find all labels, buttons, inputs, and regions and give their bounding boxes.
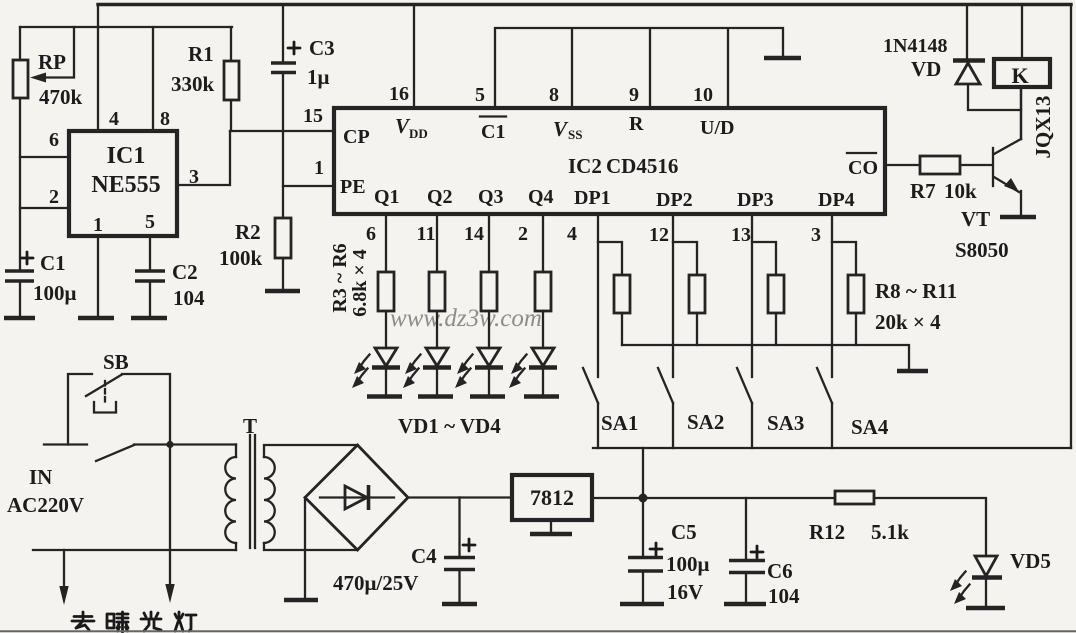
wire IC1 pin1 rail xyxy=(97,236,99,316)
svg-text:CO: CO xyxy=(848,157,878,179)
svg-text:100k: 100k xyxy=(219,246,263,270)
resistor R1 xyxy=(230,27,232,131)
svg-text:CP: CP xyxy=(343,126,370,148)
svg-text:7812: 7812 xyxy=(530,485,574,510)
wire SA bottom bus xyxy=(593,447,1071,449)
svg-text:330k: 330k xyxy=(171,72,215,96)
wire AC lower line xyxy=(33,549,236,551)
svg-text:IC1: IC1 xyxy=(107,143,146,169)
svg-text:IC2: IC2 xyxy=(568,154,602,178)
wire IC1 pin8 rail xyxy=(152,27,154,131)
resistor R2 xyxy=(275,218,291,258)
switch SB (upper pole bypass) xyxy=(68,374,92,445)
svg-text:8: 8 xyxy=(549,84,559,106)
svg-text:DD: DD xyxy=(409,126,428,141)
ground (VD4) xyxy=(524,394,559,399)
svg-text:4: 4 xyxy=(109,108,119,130)
node junction (+12V) xyxy=(639,494,648,503)
node junction (SB bypass) xyxy=(166,441,173,448)
counter IC2 CD4516 xyxy=(334,108,885,214)
svg-text:1: 1 xyxy=(93,214,103,236)
svg-text:14: 14 xyxy=(464,223,484,245)
svg-text:PE: PE xyxy=(340,176,366,198)
resistor R3 xyxy=(378,272,394,311)
resistor R9 xyxy=(673,242,697,345)
svg-text:20k × 4: 20k × 4 xyxy=(875,310,941,334)
potentiometer RP xyxy=(19,27,21,271)
ground (C4) xyxy=(442,602,477,607)
LED VD1 xyxy=(385,311,387,348)
svg-text:K: K xyxy=(1011,63,1028,88)
wire top supply bus xyxy=(98,3,1071,6)
LED VD5 xyxy=(975,556,997,576)
wire R7 to base xyxy=(960,164,991,166)
bridge rectifier xyxy=(305,445,408,550)
diode VD 1N4148 xyxy=(966,5,968,61)
ground (VD5) xyxy=(966,606,1005,611)
wire Q3 rail xyxy=(488,214,490,272)
svg-text:100μ: 100μ xyxy=(666,552,710,576)
svg-text:V: V xyxy=(553,117,569,141)
resistor R4 xyxy=(429,272,445,311)
svg-text:R8 ~ R11: R8 ~ R11 xyxy=(875,279,957,303)
svg-text:AC220V: AC220V xyxy=(7,493,84,517)
LED VD2 xyxy=(436,311,438,348)
svg-text:1: 1 xyxy=(314,157,324,179)
svg-text:100μ: 100μ xyxy=(33,281,77,305)
wire Q4 rail xyxy=(542,214,544,272)
svg-text:DP2: DP2 xyxy=(656,189,693,211)
wire DP2 rail xyxy=(672,214,674,377)
capacitor C2 xyxy=(135,271,165,281)
svg-text:16V: 16V xyxy=(667,580,703,604)
switch SA3 xyxy=(737,368,752,403)
ground (C1) xyxy=(4,316,35,321)
scan bottom border xyxy=(0,630,1076,632)
svg-text:JQX13: JQX13 xyxy=(1031,96,1055,159)
svg-text:C1: C1 xyxy=(40,251,66,275)
resistor R6 xyxy=(535,272,551,311)
svg-text:DP3: DP3 xyxy=(737,189,774,211)
capacitor C3 xyxy=(282,5,284,64)
wire bridge minus to ground xyxy=(304,498,306,600)
svg-text:VD5: VD5 xyxy=(1010,549,1051,573)
svg-text:470μ/25V: 470μ/25V xyxy=(333,571,418,595)
svg-text:R1: R1 xyxy=(188,42,214,66)
svg-text:Q4: Q4 xyxy=(528,186,554,208)
svg-text:6: 6 xyxy=(49,129,59,151)
wire DP4 rail xyxy=(831,214,833,377)
ground (VD2) xyxy=(418,394,453,399)
LED VD4 xyxy=(542,311,544,348)
svg-text:1N4148: 1N4148 xyxy=(883,35,947,57)
resistor R10 xyxy=(752,242,776,345)
arrow to exposure lamp (right) xyxy=(169,445,171,587)
svg-text:10k: 10k xyxy=(944,179,977,203)
wire DP3 rail xyxy=(751,214,753,377)
svg-text:R12: R12 xyxy=(809,520,845,544)
wire right-edge supply rail xyxy=(1070,5,1072,449)
ground (C5) xyxy=(620,602,664,607)
svg-text:C1: C1 xyxy=(481,121,505,143)
svg-text:11: 11 xyxy=(417,223,436,245)
wire Q2 rail xyxy=(436,214,438,272)
ground (C6) xyxy=(724,602,766,607)
svg-text:R: R xyxy=(629,113,644,135)
label: to exposure lamp (Chinese) xyxy=(72,612,94,630)
svg-text:Q2: Q2 xyxy=(427,186,453,208)
svg-text:R2: R2 xyxy=(235,220,261,244)
svg-text:16: 16 xyxy=(389,83,409,105)
svg-text:T: T xyxy=(243,414,257,438)
capacitor C4 xyxy=(458,498,460,558)
wire AC upper line xyxy=(44,443,87,445)
transistor VT S8050 xyxy=(992,148,994,186)
svg-text:DP1: DP1 xyxy=(574,187,611,209)
capacitor C1 xyxy=(5,271,34,281)
wire IC2 top pin bus xyxy=(495,28,783,108)
svg-text:RP: RP xyxy=(38,50,66,74)
ground (bridge) xyxy=(284,598,318,603)
svg-text:470k: 470k xyxy=(39,85,83,109)
wire IC1 pin2 xyxy=(20,207,69,209)
svg-text:9: 9 xyxy=(629,84,639,106)
svg-text:8: 8 xyxy=(160,108,170,130)
wire IC1 pin3 to CP node xyxy=(177,131,230,185)
regulator 7812 xyxy=(512,475,592,520)
svg-text:Q1: Q1 xyxy=(374,186,400,208)
LED VD3 xyxy=(488,311,490,348)
relay K JQX13 xyxy=(1021,5,1023,60)
svg-text:C2: C2 xyxy=(172,260,198,284)
svg-text:6: 6 xyxy=(366,223,376,245)
switch SA4 xyxy=(817,368,832,403)
svg-text:Q3: Q3 xyxy=(478,186,504,208)
wire Q1 rail xyxy=(385,214,387,272)
svg-text:12: 12 xyxy=(649,224,669,246)
resistor R8 xyxy=(598,242,622,345)
wire R8-R11 common bus xyxy=(622,345,909,370)
svg-text:U/D: U/D xyxy=(700,117,734,139)
transformer T xyxy=(235,445,237,458)
svg-text:2: 2 xyxy=(49,186,59,208)
resistor R12 xyxy=(835,491,874,504)
svg-text:SS: SS xyxy=(568,127,582,142)
wire CO to R7 xyxy=(885,164,920,166)
arrow to exposure lamp (left) xyxy=(63,550,65,588)
svg-text:5: 5 xyxy=(145,211,155,233)
svg-text:10: 10 xyxy=(693,84,713,106)
svg-text:15: 15 xyxy=(303,105,323,127)
svg-text:VD: VD xyxy=(911,57,941,81)
svg-text:2: 2 xyxy=(518,223,528,245)
wire bus to +12V line xyxy=(642,448,644,498)
svg-text:5: 5 xyxy=(475,84,485,106)
SB mechanical link xyxy=(104,381,106,402)
ground (VD1) xyxy=(367,394,402,399)
resistor R11 xyxy=(832,242,856,345)
wire RP-top to R1-top line xyxy=(20,26,232,28)
ground (VD3) xyxy=(470,394,505,399)
wire R12 to VD5 xyxy=(874,498,986,556)
svg-text:VD1 ~ VD4: VD1 ~ VD4 xyxy=(398,414,501,438)
svg-text:3: 3 xyxy=(811,224,821,246)
svg-text:104: 104 xyxy=(173,286,205,310)
svg-text:R7: R7 xyxy=(910,179,936,203)
svg-text:VT: VT xyxy=(961,207,990,231)
svg-text:NE555: NE555 xyxy=(91,172,160,198)
capacitor C5 xyxy=(642,498,644,557)
wire bridge plus to 7812 xyxy=(408,496,512,498)
svg-text:SA1: SA1 xyxy=(601,411,638,435)
svg-text:www.dz3w.com: www.dz3w.com xyxy=(390,305,542,332)
switch SA2 xyxy=(658,368,673,403)
capacitor C6 xyxy=(745,498,747,560)
wire +12V output line xyxy=(592,497,835,499)
svg-text:R3 ~ R6: R3 ~ R6 xyxy=(329,243,351,312)
svg-text:C3: C3 xyxy=(309,36,335,60)
ground (C2) xyxy=(131,316,167,321)
timer IC1 NE555 xyxy=(69,131,177,236)
ground (R8-R11 bus) xyxy=(897,369,928,374)
wire PE line xyxy=(283,185,334,187)
svg-text:1μ: 1μ xyxy=(307,65,330,89)
svg-text:S8050: S8050 xyxy=(955,238,1009,262)
switch SA1 xyxy=(583,368,598,403)
svg-text:SB: SB xyxy=(103,350,129,374)
wire DP1 rail xyxy=(597,214,599,377)
svg-text:4: 4 xyxy=(567,223,577,245)
ground (7812) xyxy=(530,532,572,537)
svg-text:SA4: SA4 xyxy=(851,415,889,439)
svg-text:6.8k × 4: 6.8k × 4 xyxy=(349,249,371,317)
wire IC1 pin4 rail xyxy=(97,5,99,132)
svg-text:104: 104 xyxy=(768,584,800,608)
ground (IC2 top bus) xyxy=(764,56,801,61)
ground (VT emitter) xyxy=(1000,215,1036,220)
resistor R7 xyxy=(920,156,960,174)
svg-text:SA2: SA2 xyxy=(687,410,724,434)
wire IC1 pin6 xyxy=(20,156,69,158)
svg-text:C6: C6 xyxy=(767,559,793,583)
ground (IC1 pin1) xyxy=(78,316,114,321)
svg-text:C4: C4 xyxy=(411,544,437,568)
resistor R5 xyxy=(481,272,497,311)
svg-text:13: 13 xyxy=(731,224,751,246)
svg-text:DP4: DP4 xyxy=(818,189,855,211)
wire IC1 pin5 rail xyxy=(149,236,151,271)
svg-text:IN: IN xyxy=(29,465,52,489)
svg-text:CD4516: CD4516 xyxy=(606,154,678,178)
wire CP line to IC2 xyxy=(230,130,334,132)
wire IC2 pin16 rail xyxy=(413,5,415,109)
svg-text:C5: C5 xyxy=(671,520,697,544)
switch (mains, lower pole) xyxy=(96,445,134,461)
svg-text:5.1k: 5.1k xyxy=(871,520,909,544)
ground (R2) xyxy=(265,289,300,294)
svg-text:SA3: SA3 xyxy=(767,411,804,435)
